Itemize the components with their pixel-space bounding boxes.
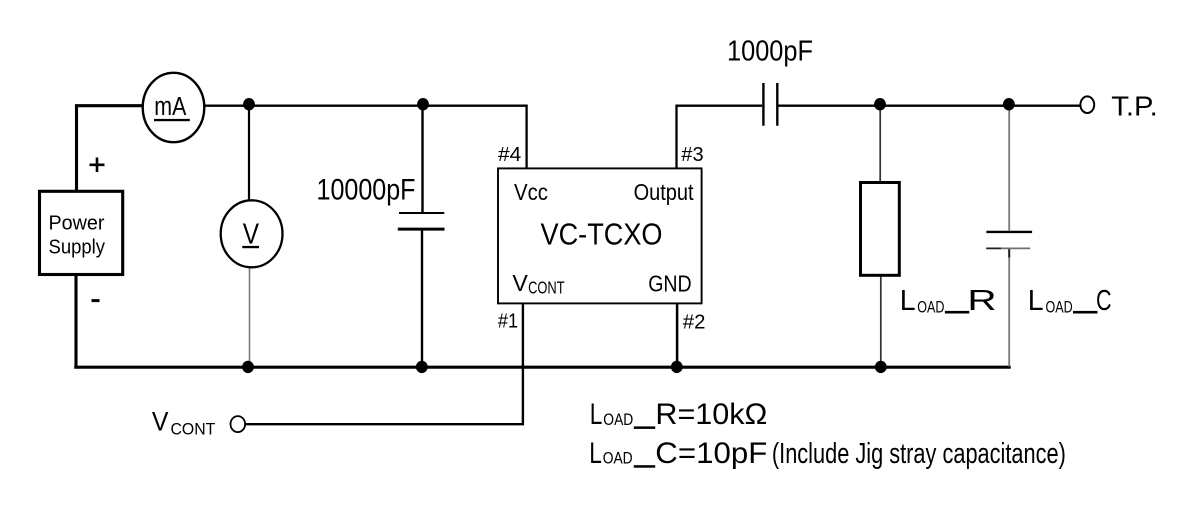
svg-text:C: C	[1096, 285, 1112, 317]
svg-text:#3: #3	[681, 143, 703, 166]
svg-text:Power: Power	[49, 212, 105, 234]
svg-text:(Include Jig stray capacitance: (Include Jig stray capacitance)	[772, 437, 1066, 469]
svg-text:#2: #2	[683, 311, 706, 334]
svg-text:Supply: Supply	[49, 237, 106, 259]
svg-text:10000pF: 10000pF	[317, 174, 416, 207]
svg-text:OAD: OAD	[1046, 298, 1073, 317]
svg-text:C=10pF: C=10pF	[655, 437, 767, 470]
svg-text:V: V	[512, 270, 528, 296]
svg-text:T.P.: T.P.	[1111, 91, 1158, 122]
svg-text:OAD: OAD	[917, 298, 944, 317]
svg-text:CONT: CONT	[171, 419, 216, 438]
svg-text:V: V	[152, 407, 169, 437]
svg-text:GND: GND	[648, 271, 692, 297]
svg-text:#4: #4	[498, 143, 521, 166]
svg-text:Vcc: Vcc	[514, 179, 548, 205]
svg-text:L: L	[590, 398, 603, 431]
svg-text:OAD: OAD	[603, 450, 633, 468]
svg-text:mA: mA	[154, 91, 186, 121]
svg-text:VC-TCXO: VC-TCXO	[541, 217, 663, 252]
svg-text:OAD: OAD	[603, 411, 633, 429]
svg-text:#1: #1	[498, 310, 518, 333]
svg-text:L: L	[1028, 285, 1044, 317]
svg-text:L: L	[900, 285, 916, 317]
svg-text:R: R	[967, 285, 996, 317]
svg-text:CONT: CONT	[528, 277, 565, 297]
svg-text:R=10kΩ: R=10kΩ	[655, 398, 767, 431]
svg-text:1000pF: 1000pF	[727, 34, 813, 66]
svg-text:L: L	[589, 437, 602, 470]
svg-text:Output: Output	[634, 179, 694, 205]
